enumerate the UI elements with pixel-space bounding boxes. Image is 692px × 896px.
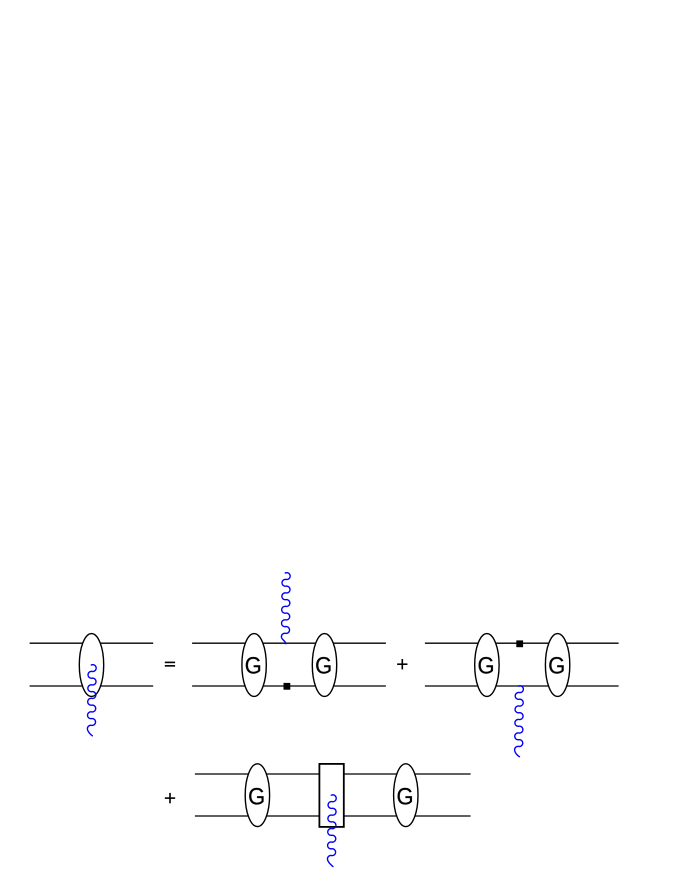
blob G (left), diagram C: [475, 634, 499, 697]
label G left, diagram C: [479, 657, 493, 674]
label G right, diagram C: [549, 657, 563, 674]
label G left, diagram D: [249, 788, 263, 805]
wire: upper nucleon line, diagram D: [195, 773, 471, 775]
vertex: coupling square on lower line, diagram B: [284, 683, 291, 690]
wire: upper nucleon line, diagram B: [192, 642, 386, 644]
plus sign, row 2: [165, 793, 175, 803]
label G right, diagram D: [398, 788, 412, 805]
blob G (right), diagram C: [545, 634, 569, 697]
label G right, diagram B: [316, 657, 330, 674]
box: gauged kernel, diagram D: [319, 764, 343, 827]
wire: lower nucleon line, diagram B: [192, 685, 386, 687]
wire: lower nucleon line, diagram C: [425, 685, 619, 687]
photon: wavy line above diagram B: [281, 573, 290, 644]
blob G (right), diagram B: [312, 634, 336, 697]
plus sign, row 1: [397, 659, 407, 669]
label G left, diagram B: [246, 657, 260, 674]
blob G (right), diagram D: [394, 764, 418, 827]
blob G (left), diagram B: [242, 634, 266, 697]
wire: upper nucleon line, diagram C: [425, 642, 619, 644]
photon: wavy line through kernel box, diagram D: [327, 795, 336, 867]
photon: wavy line from LHS blob: [87, 665, 96, 736]
equals sign: [165, 662, 175, 667]
photon: wavy line below diagram C: [515, 686, 524, 757]
wire: lower nucleon line, diagram D: [195, 815, 471, 817]
blob G (left), diagram D: [245, 764, 269, 827]
wire: upper nucleon line, diagram A: [30, 642, 154, 644]
vertex: coupling square on upper line, diagram C: [516, 640, 523, 647]
blob: gauged Green function (LHS): [79, 634, 103, 697]
wire: lower nucleon line, diagram A: [30, 685, 154, 687]
